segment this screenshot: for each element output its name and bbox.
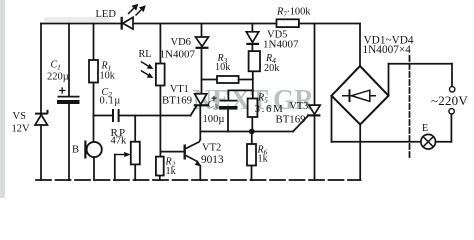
wire R5 bottom to dot [251, 117, 253, 132]
resistor RL box [156, 64, 165, 86]
wire C2 node horizontal left [94, 115, 113, 117]
wire R4 bottom to R5 top [252, 71, 254, 98]
potentiometer RP wiper arrow [115, 152, 131, 157]
svg-text:1k: 1k [166, 166, 177, 177]
svg-text:E: E [422, 123, 428, 134]
wire VD6 top lead [201, 24, 203, 38]
wire C1 column [68, 24, 70, 97]
wire bridge bottom to rail [359, 125, 361, 181]
wire C3 top tee [228, 90, 252, 100]
wire VT1 cathode column down to VT2 collector [199, 106, 201, 140]
LED [122, 4, 146, 30]
transistor VT2 [184, 140, 202, 167]
wire RP bottom lead [134, 164, 136, 180]
svg-text:~220V: ~220V [431, 93, 468, 108]
resistor R1 [89, 60, 98, 83]
wire RL to R2 column [159, 86, 161, 157]
svg-text:BT169: BT169 [276, 114, 306, 126]
wire R6 top from dot [251, 132, 253, 145]
wire R3 right lead and junction column [239, 79, 253, 81]
lamp E [421, 134, 436, 149]
wire VD5 to R4 [251, 45, 253, 51]
wire RL top lead [159, 24, 161, 64]
svg-text:VD6: VD6 [171, 37, 191, 48]
svg-text:BT169: BT169 [162, 95, 192, 107]
svg-text:LED: LED [96, 9, 117, 20]
svg-text:12V: 12V [12, 124, 31, 135]
capacitor C3 electrolytic [212, 96, 238, 110]
wire bridge right corner up [388, 64, 390, 96]
diode VD6 [196, 37, 209, 48]
wire lamp row right [436, 141, 452, 143]
terminal upper [450, 87, 455, 92]
wire bottom rail dashed [36, 179, 361, 181]
svg-text:1N4007: 1N4007 [160, 49, 196, 61]
svg-text:VT1: VT1 [170, 84, 189, 95]
wire node row y131.5 [200, 131, 293, 133]
wire R1 bottom to C2 node [93, 83, 95, 143]
capacitor C1 electrolytic [57, 87, 80, 104]
capacitor C2 [113, 109, 119, 122]
wire C3 bottom lead [227, 110, 229, 132]
svg-text:10k: 10k [100, 71, 116, 82]
svg-text:B: B [72, 145, 79, 156]
thyristor VT1 [194, 94, 209, 106]
wire VD6 to R3 node to VT1 anode [201, 48, 203, 94]
wire RP top lead [134, 116, 136, 142]
microphone B [85, 141, 101, 159]
svg-text:220µ: 220µ [47, 72, 69, 83]
bridge rectifier VD1-VD4 [332, 66, 389, 125]
svg-text:10k: 10k [215, 62, 231, 73]
svg-text:VS: VS [13, 111, 27, 122]
wire VT1 gate diagonal [191, 106, 197, 116]
wire VT3 column [314, 24, 316, 106]
wire RP wiper drop [114, 155, 116, 181]
wire lamp row left [332, 141, 421, 143]
svg-text:C1: C1 [51, 60, 61, 72]
resistor R7 [277, 19, 299, 27]
svg-text:R7∙100k: R7∙100k [276, 7, 311, 19]
dash-dot mains boundary [409, 56, 411, 160]
resistor R4 [249, 51, 260, 71]
svg-text:RL: RL [139, 49, 152, 60]
wire C2 to VT1 gate horizontal [119, 115, 190, 117]
svg-text:100µ: 100µ [203, 114, 225, 125]
resistor R5 [248, 99, 258, 118]
wire VT2 base lead [160, 151, 183, 153]
terminal lower [449, 109, 454, 114]
svg-text:9013: 9013 [201, 154, 224, 166]
svg-text:1N4007: 1N4007 [263, 39, 299, 51]
svg-text:1k: 1k [258, 154, 269, 165]
wire VT3 gate diagonal [293, 116, 308, 131]
wire AC to upper terminal [451, 64, 453, 87]
svg-text:47k: 47k [111, 136, 128, 147]
wire bridge left corner down [331, 96, 333, 142]
svg-text:1N4007×4: 1N4007×4 [363, 44, 412, 56]
wire left column [40, 24, 42, 181]
thyristor VT3 [307, 105, 320, 115]
svg-text:VT2: VT2 [202, 143, 221, 154]
wire top rail [41, 23, 360, 25]
wire R2 bottom lead [159, 176, 161, 181]
wire R6 bottom lead [251, 166, 253, 181]
resistor R3 [217, 76, 239, 83]
wire VD5 top lead [251, 24, 253, 32]
wire R3 left lead [202, 79, 218, 81]
wire R1 top lead [93, 24, 95, 61]
junction dot [249, 129, 255, 135]
wire bridge top feed [359, 24, 361, 67]
scan smudge above top rail [44, 17, 110, 22]
zener diode VS [35, 110, 48, 125]
svg-text:0.1µ: 0.1µ [100, 96, 121, 107]
resistor R6 [247, 144, 256, 166]
scan edge strip [0, 0, 5, 198]
wire AC top run [389, 63, 453, 65]
resistor RP box [131, 142, 140, 165]
svg-text:VT3: VT3 [290, 101, 309, 112]
svg-text:20k: 20k [264, 63, 280, 74]
wire mic to bottom rail [93, 157, 95, 180]
resistor R2 [156, 157, 164, 176]
diode VD5 [246, 32, 259, 44]
wire lamp to lower terminal [450, 114, 452, 142]
wire VT2 emitter drop [199, 166, 201, 180]
photoresistor RL arrows [141, 62, 154, 79]
